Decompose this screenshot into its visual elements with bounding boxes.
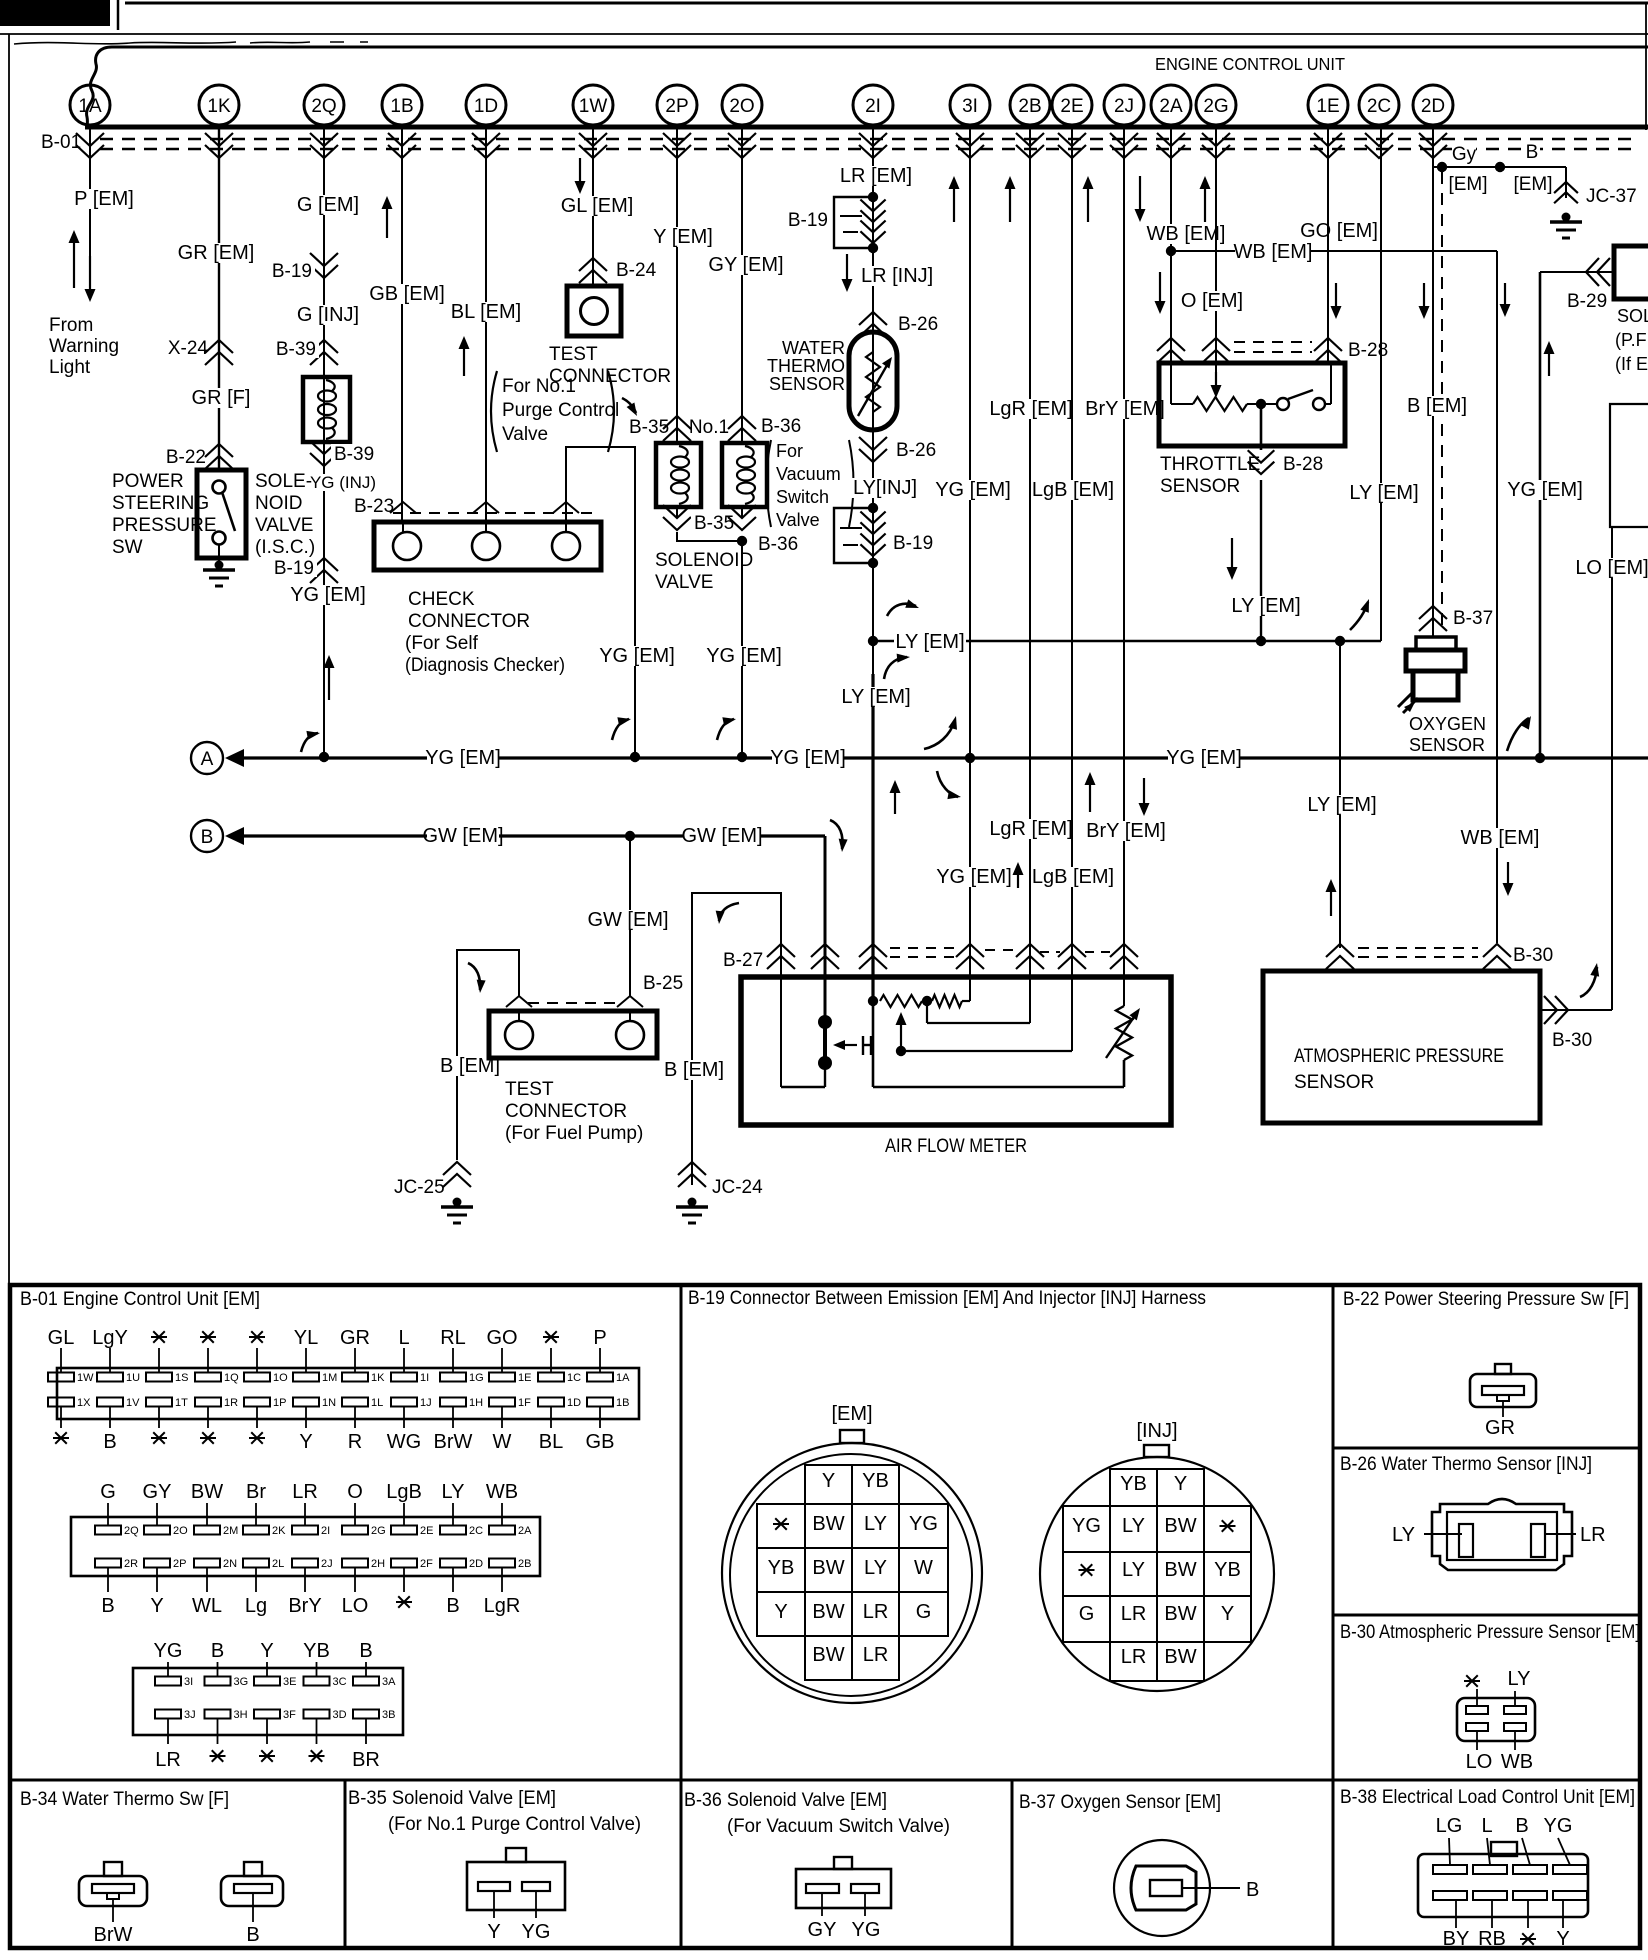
svg-text:B-27: B-27 [723, 950, 763, 971]
connector B-39 chevron lower [310, 453, 338, 466]
node A wire segment 1 [244, 756, 427, 759]
B-22 connector lead [1502, 1401, 1504, 1417]
svg-text:1W: 1W [579, 96, 608, 117]
svg-text:3B: 3B [382, 1709, 395, 1721]
B-01 pin 3I [167, 1662, 169, 1677]
svg-text:YG [EM]: YG [EM] [936, 866, 1012, 888]
arrow up on 2B top [1009, 187, 1011, 222]
svg-text:G [INJ]: G [INJ] [297, 304, 359, 326]
svg-text:YB: YB [862, 1470, 889, 1492]
svg-text:WB [EM]: WB [EM] [1234, 241, 1313, 263]
connector B-19 chevron on 2Q [310, 265, 338, 278]
solenoid valve B-35 box [656, 443, 701, 507]
svg-text:1F: 1F [518, 1397, 531, 1409]
svg-text:BY: BY [1443, 1928, 1470, 1950]
svg-text:YG (INJ): YG (INJ) [310, 473, 376, 492]
curved arrow at JC-24 elbow [719, 903, 739, 921]
B-01 pin 1C no-connection mark [543, 1336, 559, 1338]
svg-text:YG [EM]: YG [EM] [599, 645, 675, 667]
svg-text:For: For [776, 441, 803, 461]
page top-left black block [0, 0, 110, 26]
svg-text:O [EM]: O [EM] [1181, 290, 1243, 312]
B-34 left connector notch [107, 1893, 119, 1899]
B-01 pin 2L [243, 1559, 269, 1568]
wire GW down to B-25 [629, 836, 631, 997]
svg-text:1W: 1W [77, 1372, 94, 1384]
B-01 pin 1Q no-connection mark [200, 1336, 216, 1338]
connector B-27 chevron x1072 [1058, 944, 1086, 957]
arrow down on WB lower [1507, 862, 1509, 885]
svg-text:2C: 2C [469, 1525, 483, 1537]
svg-text:1Q: 1Q [224, 1372, 239, 1384]
junction 2A WB branch [1166, 246, 1176, 256]
divider B34/B35 [344, 1780, 347, 1948]
svg-text:YB: YB [303, 1640, 330, 1662]
svg-text:Valve: Valve [776, 510, 820, 530]
svg-text:LY: LY [1392, 1524, 1415, 1546]
divider B01/B19 vertical [680, 1285, 683, 1948]
B-34 right connector body [221, 1876, 283, 1906]
svg-text:X-24: X-24 [168, 338, 209, 359]
svg-text:CHECK: CHECK [408, 589, 475, 610]
throttle switch blade [1288, 390, 1313, 399]
B-01 pin 1N [293, 1398, 319, 1407]
svg-text:2A: 2A [1159, 96, 1183, 117]
B-34 right connector slot [234, 1884, 272, 1893]
svg-text:PRESSURE: PRESSURE [112, 515, 217, 536]
B-36 slot left [806, 1884, 839, 1893]
connector chevron under pin 2P [663, 145, 691, 158]
svg-text:Y: Y [822, 1470, 835, 1492]
wire B-30 right exit [1540, 1009, 1612, 1011]
svg-text:L: L [1481, 1815, 1492, 1837]
svg-text:2I: 2I [321, 1525, 330, 1537]
svg-text:B-23: B-23 [354, 496, 394, 517]
svg-text:LY: LY [442, 1481, 465, 1503]
ECU pin 2O [722, 85, 762, 125]
ECU pin 2G [1196, 85, 1236, 125]
curved arrow at 2O node A junction [717, 719, 734, 740]
svg-text:B: B [1515, 1815, 1528, 1837]
wire 2O GY [741, 127, 743, 443]
svg-text:B-19: B-19 [893, 533, 933, 554]
ground JC-25 [453, 1198, 462, 1207]
svg-text:WATER: WATER [782, 338, 845, 358]
svg-text:B: B [446, 1595, 459, 1617]
wire YG right side [1539, 272, 1542, 758]
check connector pin3 [552, 532, 580, 560]
svg-text:G: G [916, 1601, 932, 1623]
B-35 lead Y [493, 1891, 495, 1918]
connector B-28 chevron 2G [1202, 338, 1230, 351]
B-19 EM inner circle [730, 1454, 972, 1696]
arrow down on 2A [1159, 272, 1161, 303]
B-01 pin 2J [292, 1559, 318, 1568]
arrow up on 2Q [328, 666, 330, 700]
svg-text:1U: 1U [126, 1372, 140, 1384]
connector B-23 dashed line [372, 512, 598, 514]
label GW [EM] vertical [592, 910, 664, 930]
arrow down on LY wiper wire [1231, 538, 1233, 569]
B-26 lead left [1424, 1533, 1462, 1535]
B-35 connector body [467, 1862, 565, 1910]
check connector box [374, 522, 601, 570]
connector B-30 chevron left [1326, 944, 1354, 957]
B-38 slot bottom 3 [1513, 1891, 1547, 1900]
svg-text:2R: 2R [124, 1558, 138, 1570]
ECU pin 2A [1151, 85, 1191, 125]
B-36 connector tab [834, 1857, 852, 1869]
svg-text:JC-25: JC-25 [394, 1177, 445, 1198]
label LY [EM] wiper [1230, 596, 1302, 616]
svg-text:GY: GY [808, 1919, 837, 1941]
arrow down on 2J top [1139, 176, 1141, 211]
B-01 pin 3H no-connection mark [210, 1755, 226, 1757]
label LR [EM] [840, 166, 912, 186]
svg-text:ENGINE CONTROL UNIT: ENGINE CONTROL UNIT [1155, 54, 1345, 74]
svg-text:B-19: B-19 [274, 558, 314, 579]
label YG [EM] on 2O wire [708, 646, 780, 666]
solenoid valve B-35 coil [679, 446, 688, 457]
label YG [EM] node A 3 [1168, 748, 1240, 768]
connector chevron under pin 2O [728, 145, 756, 158]
svg-text:3G: 3G [234, 1676, 249, 1688]
svg-text:B: B [1246, 1879, 1259, 1901]
arrow down on 1W [579, 158, 581, 183]
svg-text:1A: 1A [616, 1372, 630, 1384]
svg-text:LR: LR [155, 1749, 181, 1771]
svg-text:Light: Light [49, 357, 91, 378]
svg-text:THERMO: THERMO [767, 356, 845, 376]
arrow down on 2D [1423, 283, 1425, 308]
B-01 pin 2M [206, 1503, 208, 1526]
svg-text:B: B [359, 1640, 372, 1662]
svg-text:For No.1: For No.1 [502, 376, 576, 397]
svg-text:Y: Y [1221, 1603, 1234, 1625]
junction 2I LY line [868, 636, 878, 646]
B-01 pin 1C [550, 1348, 552, 1373]
B-01 pin 1T [146, 1398, 172, 1407]
B-01 pin 1F [489, 1398, 515, 1407]
junction B-19 upper top [868, 192, 878, 202]
AFM resistor junction mid [922, 996, 932, 1006]
B-01 connector block1 box [57, 1368, 639, 1419]
node B wire segment 2 [499, 834, 625, 837]
connector chevron under pin 1D [472, 145, 500, 158]
B-30 slot 3 [1466, 1723, 1488, 1731]
arrow down LR INJ [846, 254, 848, 281]
svg-text:1B: 1B [390, 96, 413, 117]
B-01 pin 3G [217, 1662, 219, 1677]
svg-text:1N: 1N [322, 1397, 336, 1409]
Gy B branch line [1433, 166, 1566, 168]
label GL [EM] [561, 196, 633, 216]
B-34 left connector body [79, 1876, 147, 1906]
connector B-30 chevron right [1483, 944, 1511, 957]
B-01 pin 2C [452, 1503, 454, 1526]
svg-text:BrY [EM]: BrY [EM] [1085, 398, 1165, 420]
page top border line [125, 2, 1648, 5]
label B-19 lower on 2Q [275, 558, 317, 577]
wire 1B GB [401, 127, 403, 522]
arrow up on 3I top [953, 187, 955, 222]
B-01 pin 2R [95, 1559, 121, 1568]
connector B-19 chevron lower on 2Q [310, 558, 338, 571]
svg-text:LgY: LgY [92, 1327, 128, 1349]
svg-text:Y: Y [150, 1595, 163, 1617]
B-01 pin 1T no-connection mark [151, 1437, 167, 1439]
B-30 slot 1 [1466, 1706, 1488, 1714]
B-01 pin 1K [354, 1348, 356, 1373]
B-34 left connector tab [104, 1862, 122, 1876]
connector B-26 chevron upper [859, 312, 887, 325]
svg-text:GO [EM]: GO [EM] [1300, 220, 1378, 242]
label B-39 upper [277, 339, 319, 358]
svg-text:B-35: B-35 [694, 513, 734, 534]
B-37 connector circle [1114, 1840, 1210, 1936]
svg-text:[INJ]: [INJ] [1136, 1420, 1177, 1442]
svg-text:AIR FLOW METER: AIR FLOW METER [885, 1136, 1027, 1157]
junction B-19 lower top [868, 503, 878, 513]
svg-text:WB [EM]: WB [EM] [1461, 827, 1540, 849]
svg-text:B-36: B-36 [761, 416, 801, 437]
B-35 slot right [522, 1882, 550, 1891]
B-01 pin 2E [403, 1503, 405, 1526]
svg-text:LR: LR [292, 1481, 318, 1503]
B-01 pin 2G [354, 1503, 356, 1526]
B-26 connector inner rect [1447, 1512, 1557, 1560]
WB branch line 2 [1311, 250, 1497, 252]
wire 2E LgB [1071, 127, 1073, 1051]
svg-text:YB: YB [1214, 1559, 1241, 1581]
label LY [EM] on 2I [840, 687, 912, 707]
wire 2Q G/YG [323, 127, 325, 757]
ground under power steering switch [215, 561, 224, 570]
wire LY to B-30 [1339, 641, 1341, 948]
B-38 lead BY [1455, 1900, 1457, 1928]
node A wire segment 2 [499, 756, 1169, 759]
label P [EM] [73, 189, 135, 209]
connector chevron under pin 1B [388, 145, 416, 158]
purge pointer arrow [622, 398, 636, 413]
svg-text:GB [EM]: GB [EM] [369, 283, 445, 305]
svg-text:2A: 2A [518, 1525, 532, 1537]
wire JC-24 inside AFM [780, 977, 782, 1087]
svg-text:GL: GL [48, 1327, 75, 1349]
svg-text:BW: BW [1164, 1559, 1196, 1581]
svg-text:TEST: TEST [505, 1079, 554, 1100]
label YG [EM] on 3I [937, 480, 1009, 500]
svg-text:CONNECTOR: CONNECTOR [505, 1101, 627, 1122]
connector JC-25 chevron [443, 1162, 471, 1175]
oxygen sensor lower body [1413, 671, 1458, 700]
wire B-29 horizontal [1540, 271, 1612, 273]
connector X-24 chevron [205, 340, 233, 353]
svg-text:P [EM]: P [EM] [74, 188, 134, 210]
label YG [EM] right [1509, 480, 1581, 500]
label YG [EM] node A 2 [772, 748, 844, 768]
B-01 pin 1R no-connection mark [200, 1437, 216, 1439]
svg-text:YL: YL [294, 1327, 318, 1349]
B-01 pin 1H [440, 1398, 466, 1407]
B-26 lead right [1545, 1533, 1576, 1535]
svg-text:2Q: 2Q [124, 1525, 139, 1537]
wire 1W GL [592, 127, 594, 286]
svg-text:(Diagnosis Checker): (Diagnosis Checker) [405, 655, 565, 676]
AFM resistor 2 [932, 995, 962, 1007]
AFM fuel pump switch lead [824, 1063, 826, 1087]
svg-text:BrY [EM]: BrY [EM] [1086, 820, 1166, 842]
svg-text:2C: 2C [1367, 96, 1391, 117]
label G [INJ] [292, 305, 364, 325]
svg-text:B-26 Water Thermo Sensor [INJ: B-26 Water Thermo Sensor [INJ] [1340, 1454, 1592, 1475]
arrow up on LY B-30 wire [1330, 890, 1332, 916]
B-01 pin 3F [254, 1710, 280, 1719]
svg-text:BrW: BrW [434, 1431, 473, 1453]
connector chevron under pin 2I [859, 145, 887, 158]
B-01 pin 1J [391, 1398, 417, 1407]
label B-19 upper 2I [789, 210, 831, 229]
svg-text:2Q: 2Q [311, 96, 336, 117]
B-38 lead Y [1562, 1900, 1564, 1928]
B-36 lead GY [821, 1893, 823, 1916]
B-01 pin 1D [538, 1398, 564, 1407]
B-01 pin 1R [195, 1398, 221, 1407]
throttle sensor resistor [1193, 397, 1247, 411]
svg-text:B: B [1526, 142, 1539, 163]
wire B-35 elbow to B-36 [677, 532, 742, 541]
svg-text:Br: Br [246, 1481, 266, 1503]
B-19 INJ circle [1040, 1457, 1274, 1691]
svg-text:B-24: B-24 [616, 260, 657, 281]
B-38 slot top 3 [1513, 1865, 1547, 1874]
B-22 connector tab [1495, 1364, 1511, 1374]
svg-text:Vacuum: Vacuum [776, 464, 841, 484]
B-35 slot left [478, 1882, 510, 1891]
svg-text:BW: BW [812, 1557, 844, 1579]
svg-text:1S: 1S [175, 1372, 188, 1384]
svg-text:GR: GR [340, 1327, 370, 1349]
arrow up from warning light [73, 241, 75, 288]
wire 2G O [1215, 127, 1217, 363]
fuel pump pin left stub [518, 1011, 520, 1021]
wire 1D BL [485, 127, 487, 522]
svg-text:WB [EM]: WB [EM] [1147, 223, 1226, 245]
svg-text:GR: GR [1485, 1417, 1515, 1439]
label LY [INJ] [849, 478, 921, 498]
wire 2C corner [1380, 127, 1382, 641]
svg-text:2G: 2G [1203, 96, 1228, 117]
svg-text:LG: LG [1436, 1815, 1463, 1837]
junction 2Q to node A line [319, 752, 329, 762]
connector B-35 chevron upper [663, 416, 691, 429]
svg-text:Y [EM]: Y [EM] [653, 226, 713, 248]
label B [1525, 142, 1540, 161]
svg-text:B-36: B-36 [758, 534, 798, 555]
B-34 right lead [252, 1893, 254, 1922]
B-19 EM pin grid [805, 1465, 899, 1504]
svg-text:B-30 Atmospheric Pressure Sen: B-30 Atmospheric Pressure Sensor [EM] [1340, 1622, 1640, 1643]
svg-text:3A: 3A [382, 1676, 396, 1688]
svg-text:LR [EM]: LR [EM] [840, 165, 912, 187]
check connector pin1 stub [402, 522, 404, 532]
B-38 slot top 2 [1473, 1865, 1507, 1874]
B-22 connector slot [1482, 1386, 1524, 1395]
B-01 pin 2I [304, 1503, 306, 1526]
AFM resistor junction left [868, 996, 878, 1006]
junction GW branch [625, 831, 635, 841]
B-01 pin 2H [342, 1559, 368, 1568]
svg-text:OXYGEN: OXYGEN [1409, 714, 1486, 734]
wire JC-24 elbow [692, 893, 781, 1185]
svg-text:1K: 1K [207, 96, 231, 117]
B-22 connector notch [1497, 1395, 1509, 1401]
svg-text:LO [EM]: LO [EM] [1575, 557, 1648, 579]
arrow up on 2E top [1087, 187, 1089, 222]
node B wire segment 3 [630, 834, 684, 837]
switch contact upper [213, 481, 226, 494]
junction throttle wiper [1256, 399, 1266, 409]
svg-text:(For Fuel Pump): (For Fuel Pump) [505, 1123, 643, 1144]
svg-text:Warning: Warning [49, 336, 119, 357]
svg-text:1C: 1C [567, 1372, 581, 1384]
label LgB [EM] lower on 2E [1032, 867, 1113, 887]
throttle switch lead to 1E [1325, 403, 1331, 405]
label WB [EM] right [1464, 828, 1536, 848]
connector B-22 chevron [205, 444, 233, 457]
svg-text:1X: 1X [77, 1397, 91, 1409]
B-01 pin 1S no-connection mark [151, 1336, 167, 1338]
ECU pin 1D [466, 85, 506, 125]
wire to ground [218, 544, 220, 566]
B-01 pin 2P [144, 1559, 170, 1568]
svg-text:1B: 1B [616, 1397, 629, 1409]
svg-text:B-37: B-37 [1453, 608, 1493, 629]
svg-text:1P: 1P [273, 1397, 286, 1409]
B-01 pin 2F [391, 1559, 417, 1568]
curved arrow at 2Q node A junction [301, 733, 318, 752]
node B wire segment 4 [760, 834, 825, 837]
svg-text:RL: RL [440, 1327, 466, 1349]
B-01 pin 1A [599, 1348, 601, 1373]
svg-text:B-26: B-26 [898, 314, 938, 335]
connector B-37 chevron [1419, 606, 1447, 619]
junction YG node A [1535, 753, 1545, 763]
AFM wiper arrow [900, 1023, 902, 1050]
power steering pressure switch box [197, 470, 246, 558]
ECU pin 2D [1413, 85, 1453, 125]
svg-text:2O: 2O [173, 1525, 188, 1537]
svg-text:BL: BL [539, 1431, 563, 1453]
B-37 sensor body [1131, 1866, 1196, 1910]
svg-text:LR: LR [1121, 1646, 1147, 1668]
connector B-27 chevron x1030 [1016, 944, 1044, 957]
svg-text:GW [EM]: GW [EM] [587, 909, 668, 931]
B-30 lead top right [1514, 1691, 1516, 1706]
ECU pin 2C [1359, 85, 1399, 125]
connector chevron under pin 2G [1202, 145, 1230, 158]
svg-text:B-38 Electrical Load Control: B-38 Electrical Load Control Unit [EM] [1340, 1787, 1635, 1808]
node B arrowhead [225, 827, 244, 845]
svg-text:LY: LY [1122, 1559, 1145, 1581]
ECU pin 2J [1104, 85, 1144, 125]
svg-text:B-19 Connector Between Emissi: B-19 Connector Between Emission [EM] And… [688, 1288, 1206, 1309]
bottom table outer frame [10, 1285, 1640, 1948]
svg-text:LR [INJ]: LR [INJ] [861, 265, 933, 287]
svg-text:BrY: BrY [288, 1595, 321, 1617]
svg-text:YG [EM]: YG [EM] [935, 479, 1011, 501]
svg-text:1E: 1E [518, 1372, 531, 1384]
